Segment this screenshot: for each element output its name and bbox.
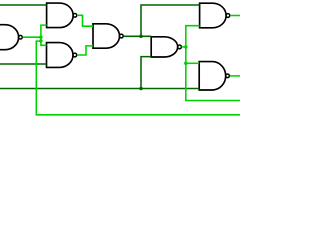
wire: vertical x=185.8 from U6.in2 elbow down to rail y=100.5, logic 1 bbox=[186, 26, 240, 101]
node D junction dot bbox=[184, 45, 188, 49]
wire: U5 output to node D, logic 1 bbox=[182, 46, 186, 48]
wire: U4 output across to U5.in1, logic 0 bbox=[123, 35, 151, 37]
NAND gate U6 (top right) bbox=[200, 3, 230, 28]
NAND gate U2 (top left) bbox=[47, 3, 77, 28]
node E junction dot bbox=[184, 62, 188, 66]
wire: U1 output to node A, logic 1 bbox=[23, 36, 41, 38]
node B junction dot bbox=[139, 35, 143, 39]
wire: node C up to U5.in2, logic 0 bbox=[141, 57, 151, 89]
NAND gate U3 (middle left) bbox=[47, 43, 77, 68]
wire: branch to U7.in1, logic 1 bbox=[186, 62, 199, 64]
wire: U6 output, logic 1 bbox=[230, 15, 240, 17]
wire: vertical x=41 feeding U2.in2 and U3.in1, logic 1 bbox=[41, 25, 47, 45]
wire: bottom rail to U7.in2, logic 0 bbox=[0, 88, 199, 90]
NAND gate U5 (center right, small) bbox=[151, 37, 181, 57]
wire: branch down to bottom bright rail y=114.8, logic 1 bbox=[36, 41, 240, 115]
wire: U7 output, logic 1 bbox=[230, 75, 240, 77]
node A2 junction dot bbox=[39, 39, 43, 43]
wire: node B up to top rail feeding U6.in1, logic 0 bbox=[141, 5, 200, 36]
wire: top input rail to U2.in1, logic 0 bbox=[0, 4, 47, 6]
node A junction dot bbox=[39, 35, 43, 39]
wire: U2 output to U4.in1, logic 1 bbox=[77, 15, 93, 26]
NAND gate U4 (center upper) bbox=[93, 24, 123, 48]
node C junction dot bbox=[139, 87, 143, 91]
wire: U3 output to U4.in2, logic 1 bbox=[77, 46, 93, 55]
NAND gate U1 (far left, partially off-canvas) bbox=[0, 25, 22, 50]
wire: input rail to U3.in2, logic 0 bbox=[0, 63, 47, 65]
NAND gate U7 (bottom right, tall) bbox=[199, 62, 229, 90]
